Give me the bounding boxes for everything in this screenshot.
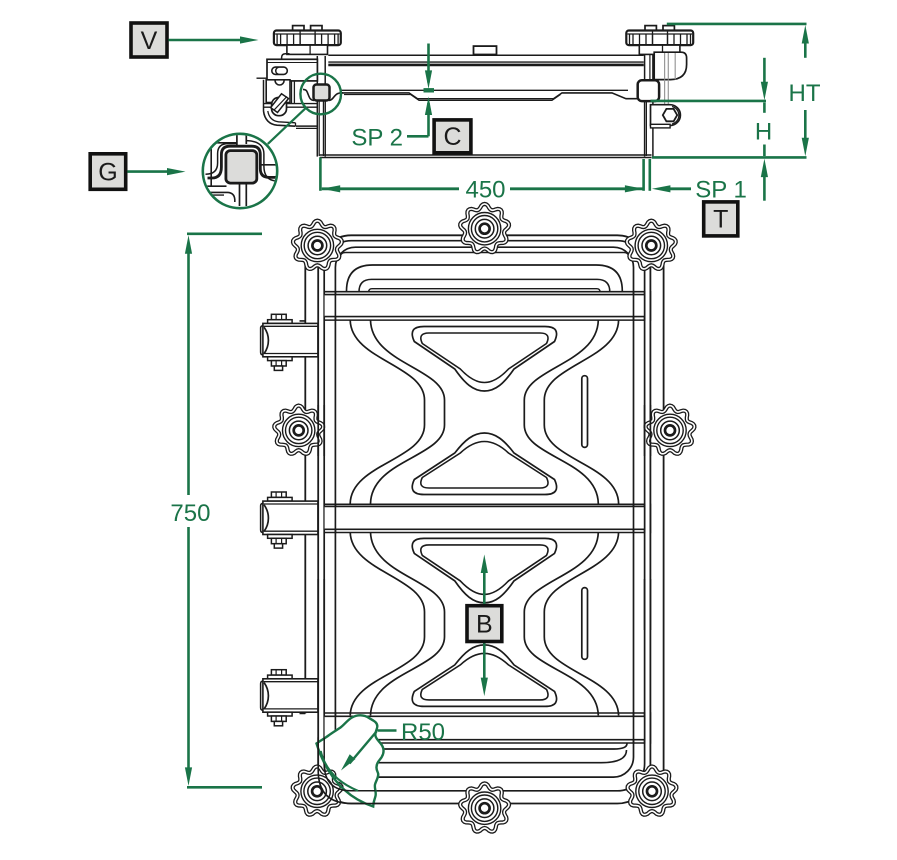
front view: panel contours xyxy=(347,265,623,292)
knob top-center xyxy=(460,204,509,252)
knob bottom-center xyxy=(460,783,509,831)
handwheel left (side view) xyxy=(293,26,304,32)
svg-text:HT: HT xyxy=(789,80,821,107)
top view: cover plate xyxy=(328,54,644,56)
hinge 3 xyxy=(261,670,318,726)
R50 corner detail overlay xyxy=(317,715,384,806)
handwheel right (side view) xyxy=(645,26,656,32)
top view: right clamp housing with swing bolt lug xyxy=(654,52,686,79)
svg-text:750: 750 xyxy=(170,500,210,527)
svg-text:T: T xyxy=(713,206,728,234)
svg-text:H: H xyxy=(755,119,772,146)
knob mid-right xyxy=(646,406,695,454)
front view: middle band xyxy=(325,506,645,529)
top view: coaming walls and base xyxy=(316,56,318,157)
front view: upper X section xyxy=(350,320,424,503)
knob mid-left xyxy=(274,406,323,454)
hinge 2 xyxy=(261,492,318,548)
knob top-left xyxy=(293,221,342,269)
green dims front view (750, B) xyxy=(187,233,262,236)
svg-text:B: B xyxy=(476,610,493,638)
front view: bottom band xyxy=(325,716,645,739)
svg-text:C: C xyxy=(443,123,461,151)
knob top-right xyxy=(627,221,676,269)
green dims top view (V G C T SP1 SP2 450 H HT) xyxy=(131,23,167,57)
svg-text:G: G xyxy=(98,158,117,186)
front view: top band xyxy=(325,295,645,317)
top view: gasket in channel xyxy=(303,89,314,100)
svg-text:V: V xyxy=(141,27,158,55)
front view: lower X section xyxy=(350,532,424,715)
svg-text:R50: R50 xyxy=(401,719,445,746)
door edge lines over side knobs xyxy=(318,405,324,630)
knob bottom-left xyxy=(293,767,342,815)
detail circle G (gasket section) xyxy=(203,134,277,208)
svg-text:SP 1: SP 1 xyxy=(695,177,747,204)
top view: left hinge bracket xyxy=(267,59,317,81)
knob bottom-right xyxy=(628,767,677,815)
R50 corner detail xyxy=(317,715,384,806)
svg-text:450: 450 xyxy=(465,176,505,203)
front view: hinge strap and keeper lines xyxy=(305,233,312,714)
hinge 1 xyxy=(261,314,318,370)
svg-text:SP 2: SP 2 xyxy=(351,125,403,152)
